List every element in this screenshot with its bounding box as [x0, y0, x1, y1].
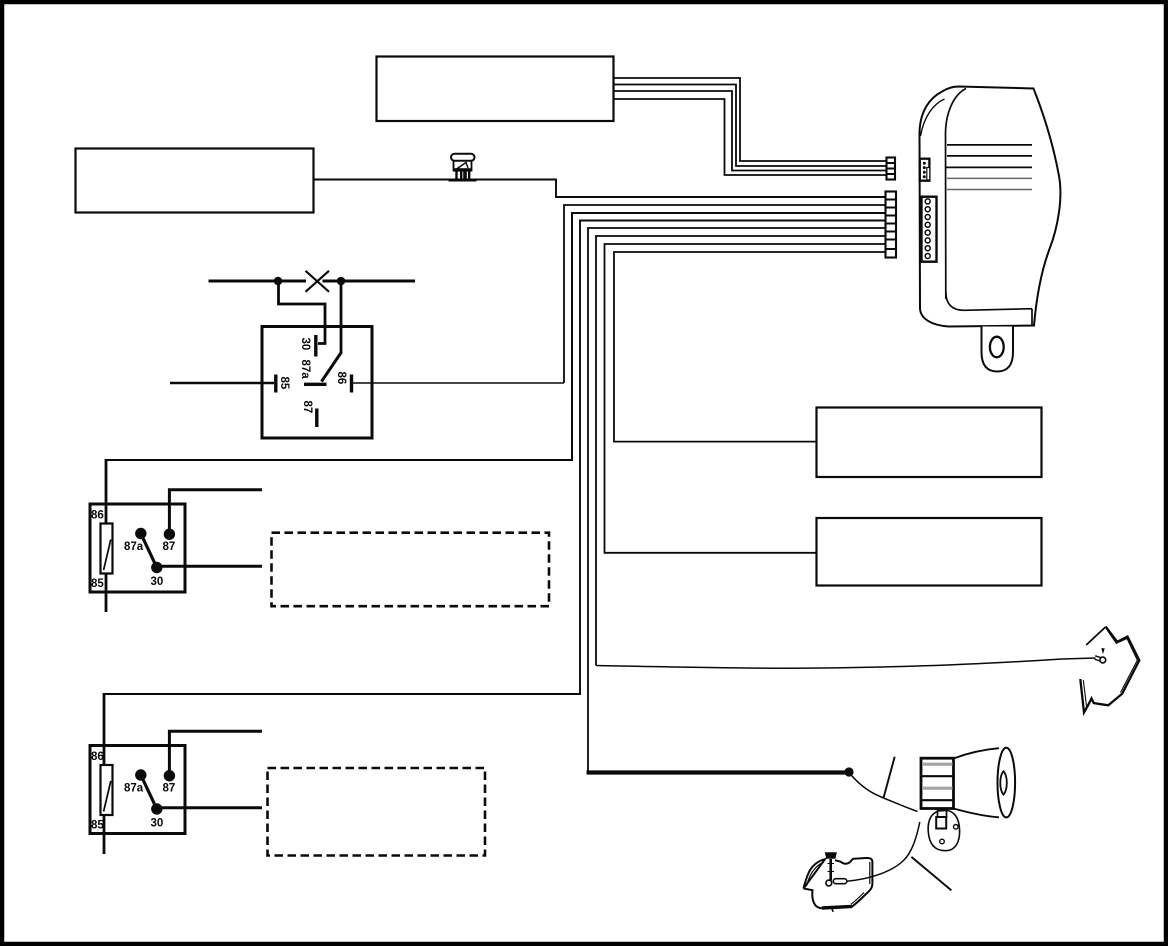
junction dot right: [337, 277, 346, 286]
svg-text:87a: 87a: [124, 541, 144, 553]
contact dot 30: [151, 562, 162, 573]
4-pin socket on unit: [920, 159, 930, 181]
svg-text:30: 30: [299, 338, 311, 351]
pin plunger collar: [1095, 656, 1101, 661]
wire: pin 85 lead: [170, 382, 274, 384]
unit inner line: [946, 89, 967, 300]
svg-text:87a: 87a: [299, 360, 311, 380]
panel diagonal: [1086, 627, 1105, 645]
siren throat ellipse: [1000, 771, 1007, 794]
svg-text:87a: 87a: [124, 783, 144, 795]
wire: left box to LED to main plug pin 1: [313, 180, 885, 198]
wire: pin 30 lead right: [157, 565, 262, 568]
box: right output 2 (label erased): [817, 518, 1042, 586]
wire: pin 87 lead up: [169, 731, 262, 775]
svg-text:87: 87: [163, 783, 176, 795]
wire: top box to 4-pin plug, wire 4: [613, 99, 886, 175]
wire: bundle pin 4 to relay3 feed: [104, 221, 885, 695]
relay R2 coil: [101, 524, 113, 574]
panel thick bottom: [822, 906, 852, 908]
armature: [141, 775, 157, 809]
bracket hole bottom: [940, 839, 945, 844]
contact dot 87a: [135, 769, 146, 780]
svg-text:86: 86: [91, 751, 104, 763]
fuse X symbol: [306, 271, 330, 292]
pin 87 bar: [315, 409, 318, 428]
svg-text:86: 86: [335, 372, 347, 385]
siren back box: [921, 758, 954, 808]
svg-text:30: 30: [151, 576, 164, 588]
switch capsule: [833, 879, 847, 884]
box: left module (label erased): [76, 149, 314, 213]
unit mounting tab: [982, 327, 1014, 372]
unit corner bevel: [921, 99, 945, 136]
panel inner double lines: [807, 862, 825, 886]
wire: top box to 4-pin plug, wire 2: [613, 85, 886, 167]
contact dot 30: [151, 803, 162, 814]
wire: thick siren feed: [587, 770, 850, 774]
pin circle: [1100, 657, 1106, 663]
relay R1 box: [262, 327, 372, 439]
bracket slot: [936, 817, 946, 829]
dashed box 2: [268, 768, 486, 856]
contact dot 87a: [135, 528, 146, 539]
siren bracket foot: [928, 811, 960, 851]
4-pin plug connector: [887, 158, 896, 180]
bracket hole right: [954, 825, 959, 830]
wire: relay1 86 lead: [353, 382, 564, 384]
wire: bundle pin 2 to relay1 86: [564, 205, 885, 383]
relay R3 box: [90, 746, 185, 834]
siren stripes: [922, 763, 953, 766]
junction dot siren feed: [844, 767, 853, 776]
contact dot 87: [164, 770, 175, 781]
box: remote/control module (top, label erased): [377, 57, 614, 122]
wire: to armature: [340, 281, 343, 353]
wire: relay2 feed vertical: [105, 459, 108, 612]
siren horn top: [954, 748, 1000, 758]
siren horn bottom: [954, 809, 1000, 818]
8-pin socket on unit: [922, 197, 937, 262]
wire: bundle pin 6 to pin-switch: [596, 236, 885, 666]
armature: [141, 534, 157, 568]
8-pin plug connector: [886, 192, 897, 258]
svg-text:87: 87: [301, 401, 313, 414]
unit grille lines: [947, 144, 1032, 146]
wire: bundle pin 5 down to siren feed: [588, 228, 885, 772]
pin 86 bar: [350, 375, 353, 393]
tab hole: [990, 337, 1004, 358]
switch pin stem: [829, 859, 832, 881]
unit outer shell: [920, 87, 1061, 327]
pin 30 bar: [314, 335, 317, 357]
contact dot 87: [164, 529, 175, 540]
panel outline: [804, 858, 873, 908]
wire: bundle pin 3 to relay2 feed: [106, 213, 885, 460]
LED status indicator on wire: [449, 154, 477, 180]
wire: bundle pin 7 to right box 2: [605, 244, 886, 553]
junction dot left: [274, 277, 283, 286]
relay R3 coil: [101, 765, 113, 815]
switch contact circle: [826, 880, 832, 886]
wire: pin 30 lead right: [157, 806, 262, 809]
svg-text:87: 87: [163, 541, 176, 553]
armature 87a: [322, 352, 342, 382]
relay R2 box: [90, 504, 185, 592]
wire: relay3 feed vertical: [103, 693, 106, 854]
switch pin head: [825, 852, 837, 858]
siren bell ellipse: [998, 748, 1016, 818]
svg-text:85: 85: [278, 377, 290, 390]
pin arrow: [1101, 648, 1104, 654]
wire: bracket to hood switch: [847, 822, 920, 881]
wire: pin 87 lead up: [169, 490, 262, 534]
dashed box 1: [272, 533, 550, 607]
svg-text:30: 30: [151, 818, 164, 830]
leader line 1: [884, 757, 895, 798]
wire: bundle pin 8 to right box 1: [614, 252, 885, 442]
box: right output 1 (label erased): [817, 408, 1042, 478]
svg-text:85: 85: [91, 820, 104, 832]
wire: top box to 4-pin plug, wire 3: [613, 91, 886, 171]
leader line 2: [911, 857, 951, 891]
svg-text:85: 85: [91, 578, 104, 590]
pin 87a bar: [304, 383, 327, 386]
panel inner lines: [1107, 630, 1138, 693]
pin 85 bar: [274, 375, 277, 393]
wire: top box to 4-pin plug, wire 1: [613, 78, 886, 161]
relay R1 supply wire: [209, 280, 416, 283]
wire: wavy lead to pin switch: [596, 658, 1096, 668]
panel outline: [1080, 627, 1139, 713]
svg-text:86: 86: [91, 510, 104, 522]
wire: to pin 30: [279, 281, 326, 344]
wavy wire from junction to siren: [849, 773, 918, 812]
siren bracket neck: [938, 810, 947, 818]
